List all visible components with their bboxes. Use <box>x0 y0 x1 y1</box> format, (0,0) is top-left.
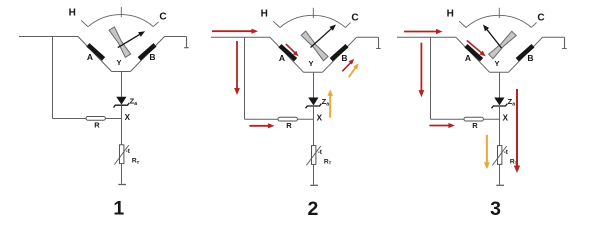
diagram 2: wire diagonal to contact B <box>322 37 356 72</box>
svg-text:RT: RT <box>324 158 332 165</box>
diagram 3: current arrow red, down past X and RT <box>516 89 518 167</box>
diagram 3: arc left end tick <box>459 21 466 27</box>
diagram 1: contact A bar <box>88 45 104 59</box>
diagram 1: wire right to terminal <box>165 36 187 38</box>
diagram 2: wire Y down to zener <box>313 72 315 97</box>
svg-text:A: A <box>279 53 285 63</box>
diagram 1: wire zener to X <box>121 105 123 145</box>
diagram 3: wire right to terminal <box>543 36 565 38</box>
diagram 2: wire V bottom at node Y <box>304 71 323 73</box>
diagram 2: wire left branch vertical <box>244 37 246 119</box>
diagram 2: current arrow red, down left branch <box>236 41 238 89</box>
diagram 2: right terminal stub <box>376 37 381 48</box>
diagram 1: contact B bar <box>139 45 155 59</box>
svg-text:A: A <box>465 53 471 63</box>
diagram 2: arc right end tick <box>345 23 350 28</box>
diagram 1: thermistor RT body <box>120 145 124 164</box>
diagram 3: switch wiper paddle <box>489 31 517 59</box>
diagram 3: current arrow red, down left branch <box>420 43 422 91</box>
diagram 2: wire left feed <box>211 36 270 38</box>
diagram 3: arc right end tick <box>531 23 536 28</box>
diagram 2: wire diagonal to contact A <box>270 37 304 72</box>
diagram 1: switch wiper direction arrow (to C) <box>118 34 141 48</box>
svg-text:X: X <box>317 114 323 123</box>
svg-text:RT: RT <box>132 158 140 165</box>
svg-text:Za: Za <box>130 96 138 107</box>
svg-text:R: R <box>286 121 292 130</box>
svg-text:B: B <box>149 52 155 62</box>
diagram 1: wire left branch vertical <box>52 37 54 119</box>
diagram 2: arc top index mark <box>312 8 314 18</box>
diagram 3: thermistor RT body <box>498 146 502 165</box>
diagram 3: switch wiper direction arrow (to H) <box>486 29 501 48</box>
diagram 1: arc right end tick <box>153 22 158 27</box>
diagram 3: resistor R body <box>464 117 483 121</box>
svg-text:1: 1 <box>113 197 124 219</box>
svg-text:-t: -t <box>126 148 131 155</box>
svg-text:Y: Y <box>494 59 499 68</box>
svg-text:R: R <box>94 120 100 129</box>
diagram 2: arc left end tick <box>273 21 280 27</box>
diagram 2: current arrow yellow, out of contact B <box>349 67 356 77</box>
diagram 2: zener diode Za cathode bar <box>306 104 322 109</box>
diagram 1: wire Y down to zener <box>121 72 123 97</box>
svg-text:B: B <box>527 53 533 63</box>
svg-text:Za: Za <box>322 97 330 108</box>
diagram 3: thermistor RT diagonal stroke <box>492 146 506 165</box>
svg-text:B: B <box>341 53 347 63</box>
diagram 1: resistor R body <box>86 117 105 121</box>
diagram 1: zener diode Za triangle <box>116 97 126 105</box>
diagram 3: ground terminal bar <box>496 184 504 186</box>
diagram 2: resistor R body <box>278 117 297 121</box>
diagram 2: contact B bar <box>331 46 347 60</box>
diagram 3: wire left branch vertical <box>430 37 432 119</box>
diagram 2: ground terminal bar <box>310 184 318 186</box>
diagram 2: current arrow yellow, up past zener <box>329 95 331 118</box>
diagram 2: wire thermistor to ground <box>313 164 315 184</box>
diagram 2: current arrow red, toward resistor R <box>249 125 269 127</box>
diagram 1: switch wiper paddle <box>109 27 131 57</box>
diagram 1: rotary switch travel arc <box>88 15 153 27</box>
svg-text:2: 2 <box>307 198 318 220</box>
svg-text:C: C <box>537 13 544 24</box>
diagram 1: ground terminal bar <box>118 184 126 186</box>
diagram 3: wire diagonal to contact B <box>508 37 542 72</box>
svg-text:X: X <box>503 114 509 123</box>
diagram 3: zener diode Za triangle <box>494 98 504 106</box>
diagram 3: current arrow red, toward resistor R <box>429 125 449 127</box>
svg-text:Za: Za <box>508 97 516 108</box>
diagram 3: rotary switch travel arc <box>466 15 531 27</box>
svg-text:Y: Y <box>116 58 121 67</box>
diagram 2: thermistor RT diagonal stroke <box>306 146 320 165</box>
svg-text:3: 3 <box>490 198 501 220</box>
diagram 3: current arrow yellow, down through RT branch <box>486 135 488 163</box>
diagram 2: rotary switch travel arc <box>280 15 345 27</box>
diagram 3: wire X to resistor branch <box>431 118 500 120</box>
diagram 1: wire diagonal to contact B <box>130 37 164 72</box>
diagram 1: arc top index mark <box>120 7 122 17</box>
svg-text:C: C <box>159 12 166 23</box>
diagram 1: right terminal stub <box>184 37 189 48</box>
svg-text:H: H <box>69 8 76 19</box>
diagram 2: thermistor RT body <box>312 146 316 165</box>
svg-text:R: R <box>472 121 478 130</box>
diagram 2: wire X to resistor branch <box>245 118 314 120</box>
diagram 2: wire zener to X <box>313 106 315 146</box>
diagram 2: current arrow red, into left feed <box>212 30 253 32</box>
svg-text:Y: Y <box>308 59 313 68</box>
diagram 1: wire V bottom at node Y <box>112 71 131 73</box>
diagram 3: wire Y down to zener <box>499 72 501 97</box>
svg-text:-t: -t <box>318 149 323 156</box>
diagram 3: wire diagonal to contact A <box>456 37 490 72</box>
diagram 3: contact B bar <box>517 46 533 60</box>
diagram 1: zener diode Za cathode bar <box>114 103 130 108</box>
svg-text:H: H <box>261 9 268 20</box>
diagram 1: thermistor RT diagonal stroke <box>114 145 128 164</box>
diagram 2: current arrow red, out of contact B <box>342 62 351 71</box>
diagram 3: wire V bottom at node Y <box>490 71 509 73</box>
diagram 3: current arrow red, through contact A <box>467 40 482 53</box>
diagram 1: wire thermistor to ground <box>121 164 123 184</box>
diagram 3: wire thermistor to ground <box>499 164 501 184</box>
diagram 2: switch wiper direction arrow (to C) <box>311 28 332 47</box>
diagram 3: current arrow red, into left feed <box>404 31 437 33</box>
diagram 3: wire left feed <box>397 36 456 38</box>
diagram 1: wire diagonal to contact A <box>78 37 112 72</box>
diagram 2: wire right to terminal <box>357 36 379 38</box>
diagram 2: zener diode Za triangle <box>308 98 318 106</box>
diagram 1: wire left feed <box>19 36 78 38</box>
diagram 2: current arrow red, through contact A <box>286 44 295 53</box>
diagram 1: arc left end tick <box>81 20 88 26</box>
diagram 3: arc top index mark <box>498 8 500 18</box>
diagram 1: wire X to resistor branch <box>53 118 122 120</box>
svg-text:C: C <box>351 13 358 24</box>
svg-text:H: H <box>447 9 454 20</box>
svg-text:-t: -t <box>504 149 509 156</box>
diagram 3: contact A bar <box>466 46 482 60</box>
diagram 3: zener diode Za cathode bar <box>492 104 508 109</box>
svg-text:A: A <box>87 52 93 62</box>
diagram 2: contact A bar <box>280 46 296 60</box>
diagram 3: wire zener to X <box>499 106 501 146</box>
diagram 3: right terminal stub <box>562 37 567 48</box>
svg-text:X: X <box>125 113 131 122</box>
diagram 2: switch wiper paddle <box>301 31 328 61</box>
